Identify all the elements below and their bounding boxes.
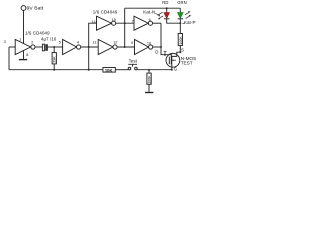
wire U1F output to node Q (116, 22, 134, 24)
capacitor C1 negative plate (45, 44, 48, 51)
resistor R2 10k horizontal (103, 68, 115, 73)
svg-text:1: 1 (19, 37, 21, 41)
op-amp U1F inverter triangle pins 14-15 (97, 16, 112, 30)
LED D1 RD red triangle (164, 13, 170, 19)
svg-text:Kat-P: Kat-P (184, 20, 196, 25)
svg-text:14: 14 (91, 20, 95, 24)
op-amp U1C inverter triangle pins 7-6 (134, 16, 148, 30)
LED D1 cathode bar (164, 18, 170, 20)
wire bottom feedback rail (9, 69, 103, 71)
svg-text:1/6 CD4049: 1/6 CD4049 (93, 9, 118, 14)
svg-text:8: 8 (26, 53, 28, 57)
inverter U1C output bubble (148, 21, 152, 25)
annotation arrow Kat-N (155, 13, 159, 15)
wire pin 8 VSS stub (23, 51, 25, 60)
node S junction dot (179, 51, 181, 53)
wire U1E output to U1D input (117, 46, 134, 48)
switch SW1 test button contacts (128, 67, 131, 70)
transistor Q1 N-MOS circle (166, 53, 180, 67)
node drain junction dot (164, 54, 166, 56)
wire red LED cathode to drain node (167, 19, 181, 23)
LED D2 cathode bar (178, 18, 184, 20)
svg-text:10K: 10K (105, 68, 113, 73)
svg-text:Kat-N: Kat-N (143, 10, 155, 15)
svg-text:6: 6 (149, 18, 151, 22)
node N1 junction dot (53, 46, 55, 48)
wire feedback left vertical (8, 47, 10, 70)
wire capacitor to node N1 (48, 46, 63, 48)
node gate junction dot (148, 69, 150, 71)
svg-text:100K: 100K (148, 75, 152, 84)
node R1 bottom junction dot (53, 69, 55, 71)
wire button to gate node (137, 69, 172, 71)
wire top rail (125, 7, 181, 9)
svg-text:15: 15 (112, 18, 116, 22)
wire 10k to test button (115, 69, 128, 71)
wire resistor to S node (172, 45, 181, 56)
battery terminal 9V Batt (21, 6, 26, 11)
op-amp U1B inverter triangle pins 5-4 (63, 39, 77, 54)
svg-text:G: G (174, 66, 178, 71)
svg-text:3: 3 (4, 40, 6, 44)
wire U1A input from feedback (9, 46, 15, 48)
transistor Q1 gate bar (168, 57, 170, 65)
svg-text:11: 11 (93, 41, 97, 45)
svg-text:TEST: TEST (181, 61, 193, 66)
transistor Q1 drain tap (171, 55, 172, 56)
resistor R3 source vertical (178, 34, 182, 46)
resistor R1 timing vertical (53, 47, 55, 70)
inverter U1E output bubble (113, 45, 117, 49)
wire U1B output to node P (81, 46, 99, 48)
ground bar under R4 (145, 92, 153, 94)
LED D2 emission arrows (185, 12, 190, 18)
ground VSS bar under U1A (19, 59, 27, 61)
wire U1C output to tie line (153, 22, 162, 24)
svg-text:100K: 100K (179, 36, 183, 45)
wire node P up to U1F input (89, 23, 97, 47)
switch SW1 actuator (128, 64, 137, 67)
node Kat-P junction dot (179, 22, 181, 24)
svg-text:39K: 39K (53, 56, 57, 63)
svg-text:5: 5 (59, 40, 61, 44)
transistor Q1 gate connection (171, 65, 173, 70)
wire U1A output to capacitor (35, 46, 42, 48)
svg-text:10: 10 (147, 41, 151, 45)
node P rail junction dot (88, 69, 90, 71)
wire node Q vertical to top rail and row (124, 8, 126, 47)
node Q junction dot top (124, 22, 126, 24)
terminal D stub (164, 52, 167, 55)
wire U1D output to tie line (153, 46, 161, 48)
node Q junction dot row (124, 46, 126, 48)
wire green LED cathode to node Kat-P (179, 19, 181, 34)
wire node P down to feedback rail (88, 47, 90, 70)
node G junction dot (171, 69, 173, 71)
svg-text:D: D (155, 50, 158, 55)
wire output tie vertical to drain (161, 23, 171, 55)
LED D1 emission arrows (158, 12, 163, 18)
node tie junction dot (160, 46, 162, 48)
node P junction dot (88, 46, 90, 48)
wire red LED anode (166, 8, 168, 12)
svg-text:RD: RD (162, 0, 168, 5)
wire green LED anode (179, 8, 181, 12)
svg-text:1/6 CD4049: 1/6 CD4049 (25, 31, 50, 36)
inverter U1A output bubble (31, 45, 35, 49)
op-amp U1D inverter triangle pins 9-10 (135, 39, 149, 54)
op-amp U1A inverter triangle pins 3-2 (15, 39, 30, 54)
svg-text:Test: Test (129, 58, 138, 63)
node red LED anode junction dot (166, 7, 168, 9)
inverter U1B output bubble (77, 45, 81, 49)
capacitor C1 4u7 positive plate (42, 44, 44, 51)
svg-text:9V Batt: 9V Batt (27, 6, 44, 12)
svg-text:12: 12 (113, 41, 117, 45)
wire VDD from battery to inverter U1A pin 1 (23, 10, 25, 43)
resistor R4 100k pulldown (148, 70, 150, 93)
inverter U1F output bubble (112, 21, 116, 25)
transistor Q1 channel bar (171, 56, 173, 65)
svg-text:GRN: GRN (177, 0, 186, 5)
svg-text:9: 9 (131, 41, 133, 45)
op-amp U1E inverter triangle pins 11-12 (98, 39, 113, 54)
transistor Q1 body arrow (172, 59, 176, 61)
inverter U1D output bubble (149, 45, 153, 49)
svg-text:S: S (181, 48, 184, 53)
svg-text:7: 7 (132, 20, 134, 24)
annotation arrow Kat-P (182, 22, 184, 24)
svg-text:2: 2 (31, 40, 33, 44)
svg-text:4µ7 /16: 4µ7 /16 (41, 36, 57, 41)
LED D2 GRN green triangle (178, 13, 184, 19)
svg-text:4: 4 (77, 41, 79, 45)
